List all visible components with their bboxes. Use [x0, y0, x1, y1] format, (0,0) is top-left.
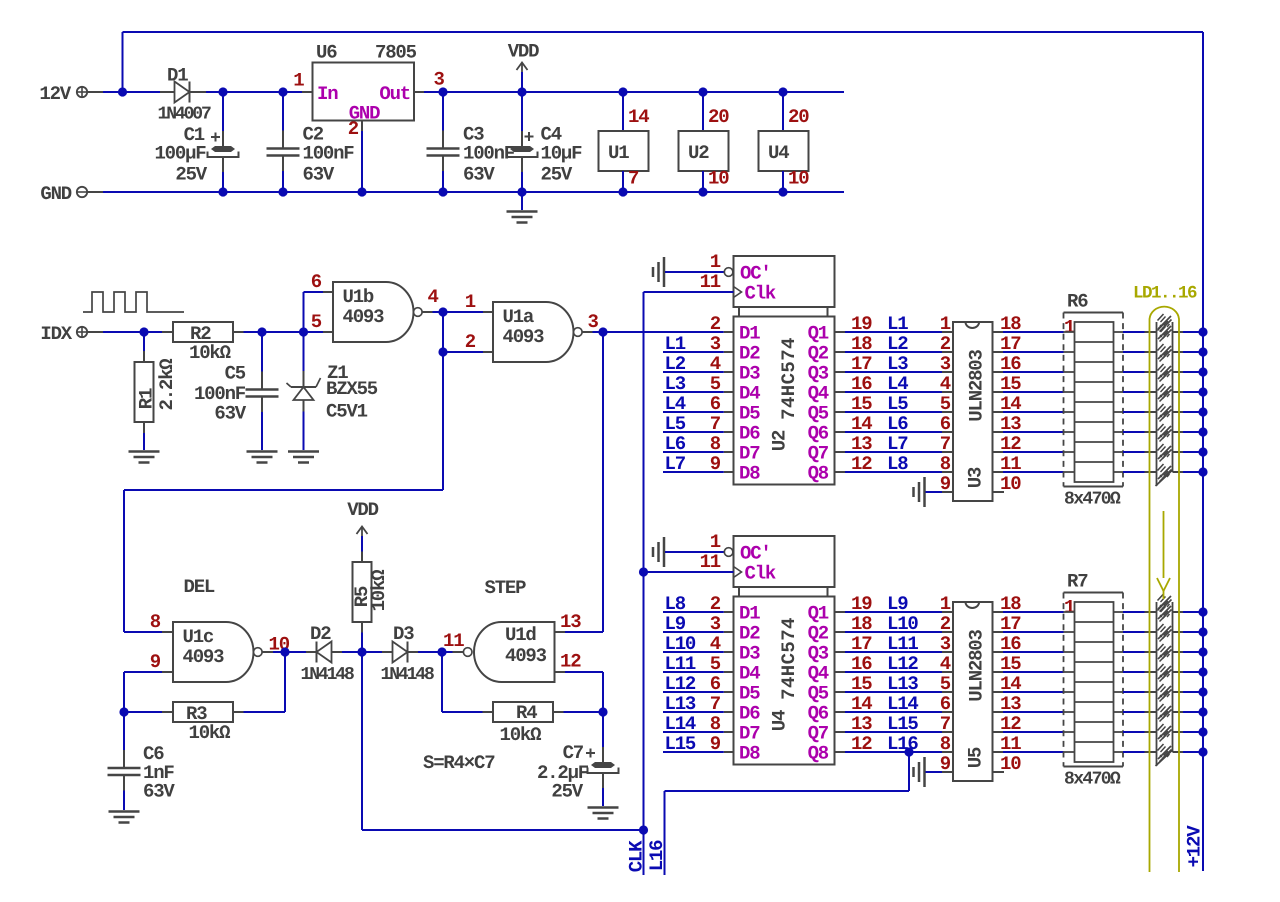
- wire to resistor network: [1003, 371, 1064, 373]
- svg-text:11: 11: [443, 630, 464, 652]
- svg-text:LD1..16: LD1..16: [1133, 284, 1197, 304]
- pin D2 U4 (pin 3): [724, 631, 734, 633]
- svg-text:D1: D1: [167, 65, 188, 87]
- wire CLK vertical: [643, 292, 645, 875]
- pin D8 U4 (pin 9): [724, 751, 734, 753]
- svg-text:25V: 25V: [175, 164, 207, 186]
- resistor network R7 outline: [1064, 592, 1124, 594]
- svg-text:3: 3: [940, 633, 951, 655]
- wire D2 to R5: [342, 651, 382, 653]
- pin Q2 U2 (pin 18): [835, 351, 846, 353]
- svg-text:1N4148: 1N4148: [381, 665, 435, 685]
- svg-text:L9: L9: [887, 593, 908, 615]
- svg-text:8: 8: [150, 611, 161, 633]
- pin Q1 U2 (pin 19): [835, 331, 846, 333]
- pin 13 U5: [993, 711, 1004, 713]
- node R4/C7: [598, 707, 607, 716]
- svg-text:7: 7: [940, 713, 951, 735]
- svg-text:L16: L16: [887, 733, 918, 755]
- pin D2 U2 (pin 3): [724, 351, 734, 353]
- svg-text:D3: D3: [739, 643, 760, 665]
- pin Q7 U2 (pin 13): [835, 451, 846, 453]
- LED row wires: [1123, 711, 1145, 713]
- pin D6 U4 (pin 7): [724, 711, 734, 713]
- svg-text:C7: C7: [563, 742, 584, 764]
- svg-text:7: 7: [628, 168, 639, 190]
- svg-text:10µF: 10µF: [541, 143, 583, 165]
- svg-text:9: 9: [940, 473, 951, 495]
- terminal 12V: [77, 87, 87, 97]
- capacitor C4: [521, 92, 523, 131]
- wire to resistor network: [1003, 431, 1064, 433]
- pin 8 U3: [942, 471, 953, 473]
- svg-text:U1: U1: [608, 142, 629, 164]
- LED row wires: [1123, 391, 1145, 393]
- svg-text:Q7: Q7: [808, 443, 829, 465]
- LED row wires: [1123, 331, 1145, 333]
- svg-text:Q5: Q5: [808, 683, 829, 705]
- net label L8: [663, 611, 724, 613]
- wire to resistor network: [1003, 611, 1064, 613]
- svg-text:L3: L3: [887, 353, 908, 375]
- wire Q5 to ULN, net L13: [845, 691, 942, 693]
- wire Q1 to ULN, net L9: [845, 611, 942, 613]
- svg-text:U1a: U1a: [503, 306, 534, 328]
- svg-text:74HC574: 74HC574: [778, 617, 800, 700]
- node bus: [1198, 747, 1207, 756]
- wire Q4 to ULN, net L12: [845, 671, 942, 673]
- node bus: [1198, 447, 1207, 456]
- svg-text:L15: L15: [665, 733, 696, 755]
- wire U1a out to U2 D1: [593, 331, 724, 333]
- capacitor C3: [438, 87, 447, 96]
- net label L2: [663, 371, 724, 373]
- pin D7 U4 (pin 8): [724, 731, 734, 733]
- svg-text:L8: L8: [665, 593, 686, 615]
- pin Q2 U4 (pin 18): [835, 631, 846, 633]
- svg-text:D2: D2: [310, 623, 331, 645]
- svg-text:L11: L11: [665, 653, 696, 675]
- wire down to R3: [284, 652, 286, 712]
- wire D1 to U6: [206, 91, 302, 93]
- svg-text:8x470Ω: 8x470Ω: [1064, 490, 1121, 510]
- svg-text:5: 5: [311, 311, 322, 333]
- pin 4 U3: [942, 391, 953, 393]
- pin Q8 U2 (pin 12): [835, 471, 846, 473]
- LED row wires: [1123, 691, 1145, 693]
- svg-text:63V: 63V: [143, 781, 175, 803]
- net label L12: [663, 691, 724, 693]
- svg-text:12: 12: [560, 651, 581, 673]
- resistor R1: [143, 332, 145, 351]
- ground below C6: [109, 810, 140, 813]
- LED row wires: [1123, 671, 1145, 673]
- pin 15 U5: [993, 671, 1004, 673]
- pin Q6 U2 (pin 14): [835, 431, 846, 433]
- svg-text:1: 1: [465, 291, 476, 313]
- pin 11 U5: [993, 751, 1004, 753]
- svg-text:20: 20: [708, 106, 729, 128]
- svg-text:4093: 4093: [183, 646, 225, 668]
- svg-text:L6: L6: [887, 413, 908, 435]
- wire +12V bus: [1202, 32, 1204, 871]
- LED row wires: [1123, 651, 1145, 653]
- terminal GND: [77, 187, 87, 197]
- node bus: [1198, 687, 1207, 696]
- node R1 top: [139, 327, 148, 336]
- svg-text:U3: U3: [965, 467, 987, 488]
- svg-text:L8: L8: [887, 453, 908, 475]
- wire to U1a pin2: [442, 312, 444, 352]
- node bus: [1198, 327, 1207, 336]
- svg-text:DEL: DEL: [184, 576, 215, 598]
- pin U6 GND: [361, 121, 363, 132]
- nand gate U1d (mirrored): [453, 651, 464, 653]
- svg-text:L10: L10: [887, 613, 918, 635]
- LED row wires: [1123, 431, 1145, 433]
- svg-text:4093: 4093: [503, 326, 545, 348]
- node bus: [1198, 387, 1207, 396]
- net label L7: [663, 471, 724, 473]
- node C1 top: [218, 87, 227, 96]
- wire Q7 to ULN, net L7: [845, 451, 942, 453]
- svg-text:Q1: Q1: [808, 603, 829, 625]
- regulator U6 7805: [302, 91, 313, 93]
- pin D1 U2 (pin 2): [724, 331, 734, 333]
- svg-text:ULN2803: ULN2803: [966, 349, 988, 421]
- svg-text:L1: L1: [887, 313, 908, 335]
- pin 12 U3: [993, 451, 1004, 453]
- svg-text:L4: L4: [665, 393, 686, 415]
- LED row wires: [1123, 411, 1145, 413]
- svg-text:10: 10: [788, 168, 809, 190]
- net label L1: [663, 351, 724, 353]
- svg-text:U1c: U1c: [183, 626, 214, 648]
- resistor elements R7: [1075, 602, 1114, 762]
- svg-text:L2: L2: [665, 353, 686, 375]
- pin 11 U3: [993, 471, 1004, 473]
- svg-text:1: 1: [710, 251, 721, 273]
- svg-text:9: 9: [940, 753, 951, 775]
- svg-text:D8: D8: [739, 743, 760, 765]
- wire U1c pin9: [124, 671, 162, 673]
- pin 3 U3: [942, 371, 953, 373]
- svg-text:2: 2: [348, 118, 359, 140]
- node C2 top: [278, 87, 287, 96]
- pin D4 U2 (pin 5): [724, 391, 734, 393]
- svg-text:10kΩ: 10kΩ: [189, 722, 231, 744]
- LED row wires: [1123, 631, 1145, 633]
- wire Q1 to ULN, net L1: [845, 331, 942, 333]
- svg-text:D5: D5: [739, 683, 760, 705]
- LED chain outline: [1156, 602, 1158, 766]
- svg-text:D6: D6: [739, 423, 760, 445]
- svg-text:Q2: Q2: [808, 623, 829, 645]
- svg-text:D8: D8: [739, 463, 760, 485]
- wire to resistor network: [1003, 471, 1064, 473]
- net label L11: [663, 671, 724, 673]
- wire D3 to U1d: [418, 651, 453, 653]
- pin 6 U5: [942, 711, 953, 713]
- LED row wires: [1123, 731, 1145, 733]
- svg-text:10kΩ: 10kΩ: [189, 342, 231, 364]
- node R5 bottom: [357, 647, 366, 656]
- ground below C4: [521, 192, 523, 210]
- svg-text:4093: 4093: [343, 306, 385, 328]
- wire top rail riser: [122, 32, 124, 92]
- net label L14: [663, 731, 724, 733]
- wire Q6 to ULN, net L14: [845, 711, 942, 713]
- wire top rail: [123, 31, 1204, 33]
- svg-text:1: 1: [940, 313, 951, 335]
- svg-text:L14: L14: [887, 693, 918, 715]
- wire pin11 to R4: [441, 652, 443, 712]
- svg-text:3: 3: [940, 353, 951, 375]
- wire to resistor network: [1003, 331, 1064, 333]
- svg-text:7805: 7805: [375, 42, 417, 64]
- LED row wires: [1123, 751, 1145, 753]
- wire to U1d pin13: [602, 332, 604, 632]
- pin OC' U2: [663, 257, 666, 287]
- svg-text:D2: D2: [739, 623, 760, 645]
- power box U1: [618, 87, 627, 96]
- svg-text:STEP: STEP: [485, 577, 527, 599]
- LED chain bottom bevel: [1156, 470, 1173, 486]
- svg-text:6: 6: [311, 271, 322, 293]
- pin 4 U5: [942, 671, 953, 673]
- svg-text:1N4148: 1N4148: [301, 665, 355, 685]
- pin 1 U5: [942, 611, 953, 613]
- svg-text:L16: L16: [646, 840, 668, 871]
- pin 16 U5: [993, 651, 1004, 653]
- svg-text:5: 5: [940, 393, 951, 415]
- resistor R2: [162, 331, 173, 333]
- pin 7 U3: [942, 451, 953, 453]
- pin 2 U5: [942, 631, 953, 633]
- svg-text:7: 7: [940, 433, 951, 455]
- pin 14 U3: [993, 411, 1004, 413]
- wire CLK source: [361, 652, 363, 830]
- svg-text:D3: D3: [739, 363, 760, 385]
- svg-text:L1: L1: [665, 333, 686, 355]
- svg-text:9: 9: [150, 651, 161, 673]
- svg-text:8: 8: [940, 733, 951, 755]
- pin 15 U3: [993, 391, 1004, 393]
- pin 17 U3: [993, 351, 1004, 353]
- pin 5 U3: [942, 411, 953, 413]
- pin Q8 U4 (pin 12): [835, 751, 846, 753]
- svg-text:D1: D1: [739, 603, 760, 625]
- wire U1c out: [273, 651, 306, 653]
- svg-text:R6: R6: [1067, 291, 1088, 313]
- node Z1 top: [299, 327, 308, 336]
- pin Q4 U2 (pin 16): [835, 391, 846, 393]
- svg-text:U4: U4: [769, 710, 791, 731]
- svg-text:U2: U2: [769, 430, 791, 451]
- pin 10 U3: [993, 491, 1005, 493]
- pin D1 U4 (pin 2): [724, 611, 734, 613]
- svg-text:L13: L13: [665, 693, 696, 715]
- svg-text:Clk: Clk: [745, 283, 776, 305]
- svg-text:6: 6: [940, 413, 951, 435]
- svg-text:L14: L14: [665, 713, 696, 735]
- svg-text:Q6: Q6: [808, 703, 829, 725]
- diode D2: [306, 651, 317, 653]
- svg-text:L7: L7: [887, 433, 908, 455]
- svg-text:6: 6: [940, 693, 951, 715]
- svg-text:63V: 63V: [303, 164, 335, 186]
- svg-text:L13: L13: [887, 673, 918, 695]
- LED chain bottom bevel: [1156, 750, 1173, 766]
- node pin13 branch: [598, 327, 607, 336]
- svg-text:1N4007: 1N4007: [158, 105, 212, 125]
- svg-text:L5: L5: [665, 413, 686, 435]
- wire to resistor network: [1003, 631, 1064, 633]
- svg-text:100nF: 100nF: [303, 143, 355, 165]
- svg-text:3: 3: [434, 69, 445, 91]
- wire Q6 to ULN, net L6: [845, 431, 942, 433]
- pin 5 U5: [942, 691, 953, 693]
- svg-text:Q6: Q6: [808, 423, 829, 445]
- pin D7 U2 (pin 8): [724, 451, 734, 453]
- svg-text:D6: D6: [739, 703, 760, 725]
- svg-text:4: 4: [940, 653, 951, 675]
- node C2 bottom: [278, 187, 287, 196]
- nand gate U1b: [323, 291, 333, 293]
- pin 18 U3: [993, 331, 1004, 333]
- svg-text:4: 4: [428, 286, 439, 308]
- svg-text:Q4: Q4: [808, 663, 829, 685]
- capacitor C5: [261, 332, 263, 372]
- net label L13: [663, 711, 724, 713]
- svg-text:GND: GND: [40, 183, 71, 205]
- svg-text:5: 5: [940, 673, 951, 695]
- svg-text:Q8: Q8: [808, 743, 829, 765]
- pin 1 U3: [942, 331, 953, 333]
- LED row wires: [1123, 371, 1145, 373]
- svg-text:D1: D1: [739, 323, 760, 345]
- node C6/R3: [119, 707, 128, 716]
- svg-text:L11: L11: [887, 633, 918, 655]
- wire to resistor network: [1003, 711, 1064, 713]
- LED chain outline: [1156, 322, 1158, 486]
- svg-text:1: 1: [293, 70, 304, 92]
- node R3/D2: [280, 647, 289, 656]
- svg-text:10: 10: [1000, 753, 1021, 775]
- node bus: [1198, 727, 1207, 736]
- net label L9: [663, 631, 724, 633]
- svg-text:11: 11: [700, 551, 721, 573]
- pin 8 U5: [942, 751, 953, 753]
- svg-text:L3: L3: [665, 373, 686, 395]
- latch U4 74HC574 upper box: [734, 536, 835, 587]
- wire U1b out: [433, 311, 484, 313]
- node bus: [1198, 427, 1207, 436]
- wire to resistor network: [1003, 351, 1064, 353]
- resistor R4: [483, 711, 494, 713]
- LED row wires: [1123, 351, 1145, 353]
- svg-text:2.2kΩ: 2.2kΩ: [156, 359, 178, 411]
- wire Q5 to ULN, net L5: [845, 411, 942, 413]
- pin Q3 U2 (pin 17): [835, 371, 846, 373]
- svg-text:4: 4: [940, 373, 951, 395]
- pin 7 U5: [942, 731, 953, 733]
- svg-text:12V: 12V: [39, 83, 71, 105]
- net label L6: [663, 451, 724, 453]
- node bus: [1198, 367, 1207, 376]
- capacitor C6: [123, 712, 125, 750]
- svg-text:D4: D4: [739, 663, 760, 685]
- capacitor C1: [222, 92, 224, 131]
- svg-text:D2: D2: [739, 343, 760, 365]
- pin 17 U5: [993, 631, 1004, 633]
- wire R2 to gate: [244, 331, 324, 333]
- wire Q8 to ULN, net L8: [845, 471, 942, 473]
- net label L4: [663, 411, 724, 413]
- svg-text:U1b: U1b: [343, 286, 374, 308]
- svg-text:10kΩ: 10kΩ: [368, 570, 390, 612]
- driver U5 ULN2803 box: [953, 602, 993, 781]
- node CLK bottom: [639, 825, 648, 834]
- svg-text:Q7: Q7: [808, 723, 829, 745]
- svg-text:63V: 63V: [214, 403, 246, 425]
- ground below Z1: [288, 450, 319, 453]
- ground below C5: [247, 450, 278, 453]
- svg-text:D5: D5: [739, 403, 760, 425]
- svg-text:Q1: Q1: [808, 323, 829, 345]
- waveform symbol: [83, 292, 184, 312]
- svg-text:L7: L7: [665, 453, 686, 475]
- latch U2 74HC574 upper box: [734, 256, 835, 307]
- wire U1d pin12 to R4/C7: [565, 671, 603, 673]
- power symbol VDD top: [517, 87, 526, 96]
- pin 16 U3: [993, 371, 1004, 373]
- svg-text:D4: D4: [739, 383, 760, 405]
- svg-text:2: 2: [940, 333, 951, 355]
- svg-text:Q3: Q3: [808, 643, 829, 665]
- pin 9 U5 ground: [923, 757, 926, 787]
- svg-text:Q5: Q5: [808, 403, 829, 425]
- svg-text:U5: U5: [965, 747, 987, 768]
- svg-text:4093: 4093: [505, 645, 547, 667]
- pin Q5 U4 (pin 15): [835, 691, 846, 693]
- svg-text:3: 3: [588, 311, 599, 333]
- pin Q4 U4 (pin 16): [835, 671, 846, 673]
- svg-text:BZX55: BZX55: [326, 378, 378, 400]
- diode D1: [160, 91, 175, 93]
- svg-text:S=R4×C7: S=R4×C7: [423, 752, 495, 774]
- pin 13 U3: [993, 431, 1004, 433]
- pin 12 U5: [993, 731, 1004, 733]
- node C1 bottom: [218, 187, 227, 196]
- wire GND rail: [103, 191, 844, 193]
- svg-text:10kΩ: 10kΩ: [500, 724, 542, 746]
- pin D6 U2 (pin 7): [724, 431, 734, 433]
- svg-text:74HC574: 74HC574: [778, 337, 800, 420]
- svg-text:U1d: U1d: [505, 624, 536, 646]
- wire to resistor network: [1003, 731, 1064, 733]
- capacitor C7: [602, 712, 604, 747]
- wire Q7 to ULN, net L15: [845, 731, 942, 733]
- wire VDD rail: [424, 91, 844, 93]
- svg-text:1: 1: [940, 593, 951, 615]
- svg-text:L6: L6: [665, 433, 686, 455]
- pin D4 U4 (pin 5): [724, 671, 734, 673]
- node bus: [1198, 627, 1207, 636]
- svg-text:Q4: Q4: [808, 383, 829, 405]
- pin 3 U5: [942, 651, 953, 653]
- pin Q1 U4 (pin 19): [835, 611, 846, 613]
